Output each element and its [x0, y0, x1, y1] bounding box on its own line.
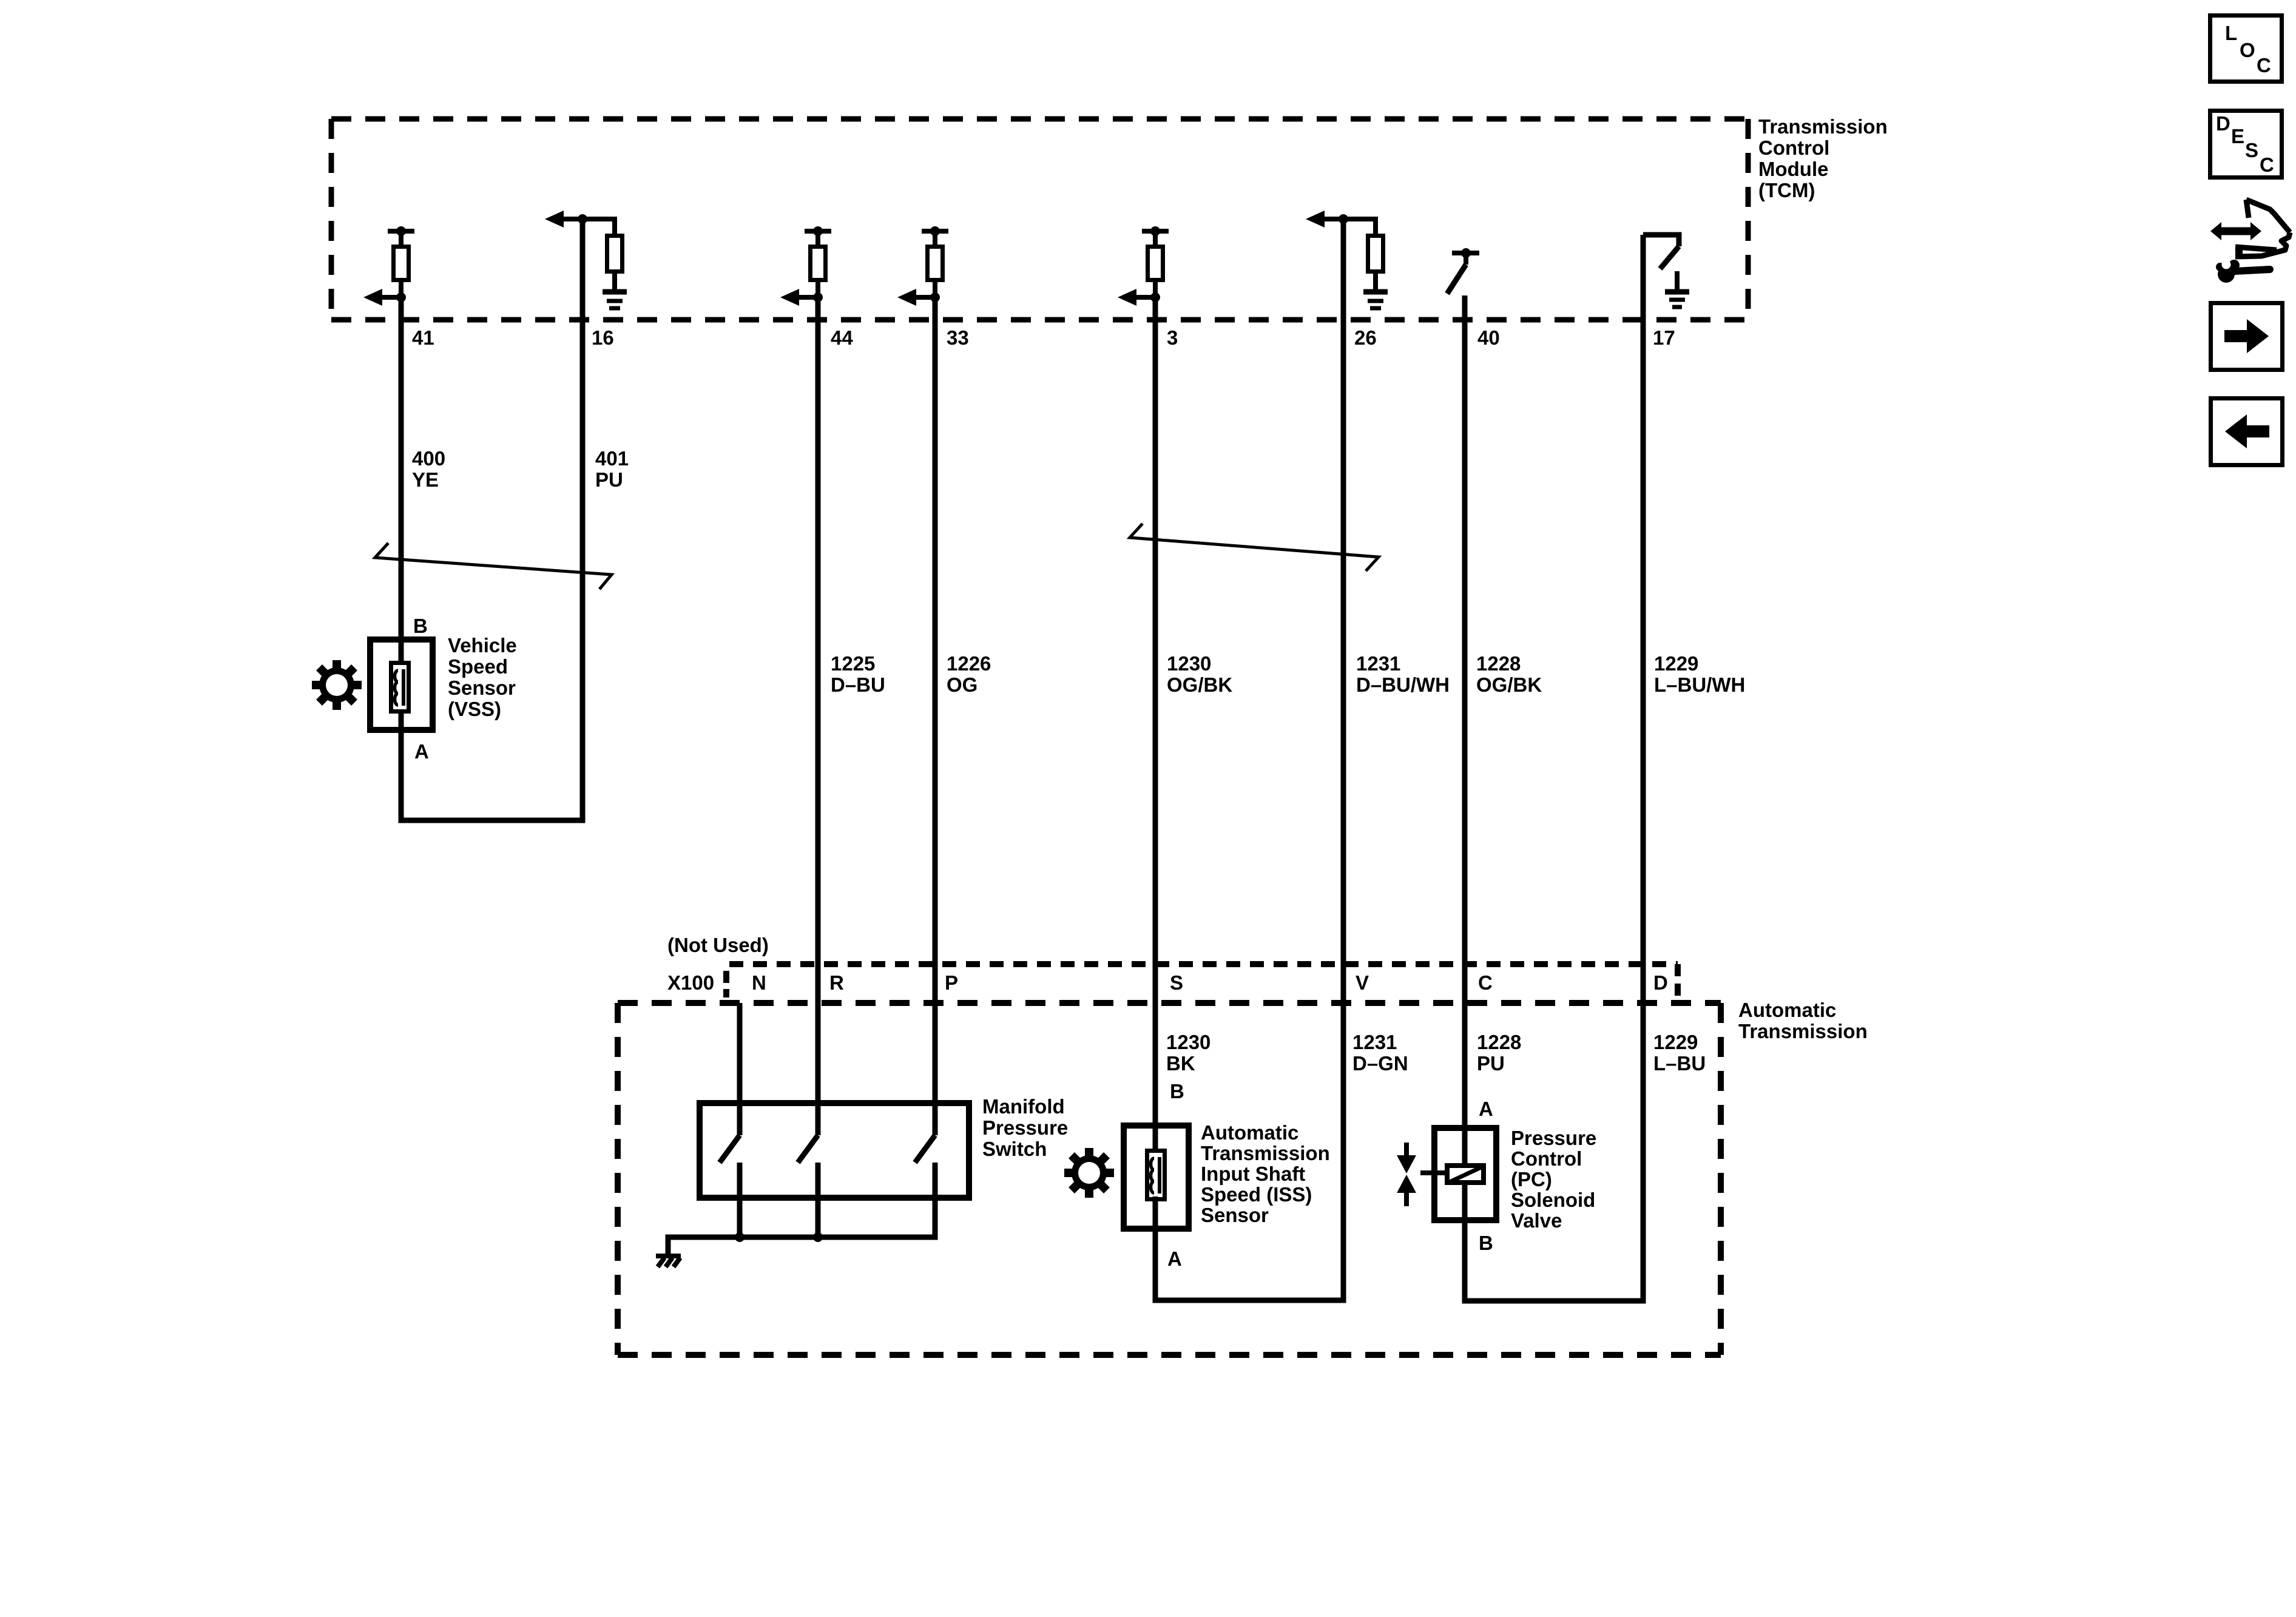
wire label 1230 BK — [1166, 1031, 1210, 1075]
resistor R33 pull-up with input arrow, TCM pin — [897, 226, 948, 306]
wire label 1229 L-BU — [1653, 1031, 1706, 1075]
svg-text:L: L — [2225, 22, 2237, 44]
junction R on bus — [813, 1232, 823, 1242]
wire label 1228 OG/BK — [1476, 652, 1542, 696]
svg-text:(Not Used): (Not Used) — [667, 934, 769, 956]
svg-text:33: 33 — [947, 326, 969, 349]
svg-text:X100: X100 — [667, 971, 714, 994]
svg-text:C: C — [1478, 971, 1493, 994]
svg-text:OG/BK: OG/BK — [1476, 673, 1542, 696]
svg-text:Vehicle: Vehicle — [448, 634, 517, 657]
svg-text:Valve: Valve — [1511, 1209, 1562, 1232]
svg-text:1226: 1226 — [947, 652, 991, 675]
VSS sensor element — [391, 663, 409, 712]
svg-text:A: A — [1167, 1247, 1182, 1270]
resistor R26 to ground with output arrow, TCM pin — [1306, 211, 1383, 292]
svg-text:1231: 1231 — [1356, 652, 1400, 675]
switch blade N — [720, 1135, 740, 1163]
svg-text:Input Shaft: Input Shaft — [1201, 1163, 1305, 1185]
svg-text:S: S — [1170, 971, 1183, 994]
signal ground at TCM pin 17 — [1665, 271, 1689, 307]
chassis ground symbol — [656, 1256, 681, 1267]
wire 401 PU: VSS A loop to TCM pin 16 — [401, 219, 582, 820]
svg-text:(PC): (PC) — [1511, 1168, 1552, 1190]
svg-text:Transmission: Transmission — [1758, 115, 1888, 138]
svg-text:BK: BK — [1166, 1052, 1195, 1075]
svg-text:401: 401 — [595, 447, 629, 470]
junction N on bus — [735, 1232, 745, 1242]
wire label 1230 OG/BK — [1167, 652, 1232, 696]
LOC navigation box — [2210, 16, 2282, 82]
resistor R41 pull-up with input arrow, TCM pin — [363, 226, 414, 306]
switch (driver) at TCM pin 40 — [1447, 248, 1479, 294]
svg-text:R: R — [829, 971, 844, 994]
wire label 401 PU — [595, 447, 629, 491]
wire label 1231 D-GN — [1352, 1031, 1408, 1075]
svg-text:Automatic: Automatic — [1201, 1121, 1298, 1144]
svg-text:D–GN: D–GN — [1352, 1052, 1408, 1075]
wire label 1229 L-BU/WH — [1654, 652, 1745, 696]
svg-text:Sensor: Sensor — [1201, 1204, 1269, 1226]
wire 1231 D-BU/WH: ISS sensor A loop to TCM pin 26 — [1155, 219, 1343, 1300]
Automatic Transmission dashed box — [618, 1003, 1721, 1355]
wire 1230 OG/BK: TCM pin 3 to ISS sensor B — [1153, 297, 1158, 1122]
wire label 1231 D-BU/WH — [1356, 652, 1450, 696]
svg-text:Automatic: Automatic — [1738, 999, 1836, 1021]
wire N (not used) into pressure switch — [737, 1003, 743, 1135]
wire 1229 L-BU/WH: PC solenoid B loop to TCM pin 17 — [1465, 235, 1643, 1301]
svg-text:OG/BK: OG/BK — [1167, 673, 1232, 696]
svg-text:1225: 1225 — [831, 652, 875, 675]
signal ground inside TCM at pin 16 — [603, 292, 627, 308]
wire stub below switch N — [737, 1163, 743, 1237]
wire 1226 OG: TCM pin 33 to connector P — [933, 297, 938, 1135]
svg-text:A: A — [1479, 1098, 1493, 1120]
svg-text:E: E — [2231, 125, 2244, 147]
svg-text:1228: 1228 — [1476, 652, 1521, 675]
solenoid coil symbol — [1447, 1166, 1484, 1183]
wire 1225 D-BU: TCM pin 44 to connector R — [815, 297, 821, 1135]
svg-text:D: D — [1653, 971, 1668, 994]
svg-text:Solenoid: Solenoid — [1511, 1189, 1595, 1211]
svg-text:1229: 1229 — [1654, 652, 1698, 675]
Manifold Pressure Switch box — [700, 1103, 969, 1198]
wire through PC solenoid body — [1462, 1125, 1468, 1166]
gear icon at ISS — [1064, 1148, 1114, 1198]
svg-text:3: 3 — [1167, 326, 1178, 349]
valve symbol (two triangles) — [1397, 1143, 1416, 1206]
wire through ISS body — [1153, 1122, 1158, 1151]
svg-text:16: 16 — [592, 326, 614, 349]
svg-text:(VSS): (VSS) — [448, 698, 501, 720]
wire label 1225 D-BU — [831, 652, 885, 696]
svg-text:Speed: Speed — [448, 655, 508, 678]
adjust icon: hand with double arrow and wrench — [2210, 200, 2290, 283]
twisted pair mark wires 1230/1231 — [1130, 524, 1379, 571]
svg-text:N: N — [752, 971, 766, 994]
svg-text:400: 400 — [412, 447, 445, 470]
svg-text:C: C — [2260, 154, 2274, 176]
wire stub below switch R — [815, 1163, 821, 1237]
twisted pair mark wires 400/401 — [375, 543, 612, 589]
svg-text:PU: PU — [1477, 1052, 1505, 1075]
svg-text:P: P — [945, 971, 958, 994]
TCM module dashed box — [331, 119, 1748, 320]
ISS sensor element — [1147, 1151, 1165, 1200]
svg-text:Sensor: Sensor — [448, 677, 516, 699]
Pressure Control solenoid valve box — [1434, 1128, 1496, 1220]
wire stub below switch P and ground bus — [668, 1163, 935, 1255]
back arrow box — [2211, 399, 2283, 465]
TCM label — [1758, 115, 1888, 201]
svg-text:O: O — [2240, 39, 2255, 61]
svg-text:1230: 1230 — [1166, 1031, 1210, 1053]
svg-text:D–BU: D–BU — [831, 673, 885, 696]
svg-text:1230: 1230 — [1167, 652, 1211, 675]
svg-text:Speed (ISS): Speed (ISS) — [1201, 1183, 1312, 1206]
wire label 1228 PU — [1477, 1031, 1521, 1075]
svg-text:Control: Control — [1511, 1147, 1582, 1170]
VSS label — [448, 634, 517, 720]
resistor R16 to ground with output arrow, TCM pin — [545, 211, 623, 292]
svg-text:Manifold: Manifold — [982, 1095, 1065, 1118]
wire label 1226 OG — [947, 652, 991, 696]
svg-text:Transmission: Transmission — [1738, 1020, 1868, 1042]
svg-text:Switch: Switch — [982, 1138, 1047, 1160]
switch blade P — [915, 1135, 935, 1163]
signal ground inside TCM at pin 26 — [1363, 292, 1388, 308]
svg-text:L–BU: L–BU — [1653, 1052, 1706, 1075]
gear icon at VSS — [312, 660, 362, 710]
svg-text:B: B — [413, 615, 428, 637]
svg-text:V: V — [1356, 971, 1369, 994]
PC solenoid label — [1511, 1127, 1596, 1232]
svg-text:B: B — [1479, 1232, 1493, 1254]
svg-text:C: C — [2257, 54, 2271, 76]
svg-text:26: 26 — [1354, 326, 1377, 349]
svg-text:Pressure: Pressure — [1511, 1127, 1596, 1149]
svg-text:L–BU/WH: L–BU/WH — [1654, 673, 1745, 696]
connector X100 dashed strip — [726, 964, 1678, 1003]
svg-text:D: D — [2216, 112, 2230, 135]
Automatic Transmission label — [1738, 999, 1868, 1042]
svg-text:Control: Control — [1758, 137, 1829, 159]
ISS sensor box — [1124, 1126, 1189, 1229]
resistor R44 pull-up with input arrow, TCM pin — [780, 226, 831, 306]
wire through VSS body — [399, 636, 404, 663]
connector pin letters — [752, 971, 1668, 994]
solenoid lead to valve — [1420, 1170, 1445, 1175]
svg-text:1229: 1229 — [1653, 1031, 1698, 1053]
svg-text:Module: Module — [1758, 158, 1828, 180]
wire label 400 YE — [412, 447, 445, 491]
wire 1228 OG/BK: TCM pin 40 to PC solenoid A — [1462, 295, 1468, 1125]
svg-text:1231: 1231 — [1352, 1031, 1397, 1053]
svg-text:S: S — [2245, 139, 2258, 161]
svg-text:41: 41 — [412, 326, 434, 349]
svg-text:(TCM): (TCM) — [1758, 179, 1815, 201]
svg-text:YE: YE — [412, 468, 439, 491]
svg-text:1228: 1228 — [1477, 1031, 1521, 1053]
switch to ground at TCM pin 17 — [1643, 235, 1679, 269]
svg-text:D–BU/WH: D–BU/WH — [1356, 673, 1450, 696]
svg-text:40: 40 — [1477, 326, 1500, 349]
pin number labels TCM — [412, 326, 1675, 349]
svg-text:B: B — [1170, 1080, 1184, 1102]
Vehicle Speed Sensor VSS box — [370, 640, 433, 730]
svg-text:44: 44 — [831, 326, 853, 349]
svg-text:PU: PU — [595, 468, 623, 491]
wire 400 YE: TCM pin 41 to VSS B — [399, 297, 404, 636]
resistor R3 pull-up with input arrow, TCM pin — [1118, 226, 1169, 306]
forward arrow box — [2211, 303, 2283, 370]
svg-text:Transmission: Transmission — [1201, 1142, 1330, 1164]
ISS label — [1201, 1121, 1330, 1226]
svg-text:17: 17 — [1653, 326, 1675, 349]
Manifold Pressure Switch label — [982, 1095, 1068, 1160]
switch blade R — [798, 1135, 818, 1163]
svg-text:OG: OG — [947, 673, 977, 696]
DESC navigation box — [2210, 111, 2282, 178]
svg-text:Pressure: Pressure — [982, 1116, 1068, 1139]
svg-text:A: A — [414, 740, 429, 763]
